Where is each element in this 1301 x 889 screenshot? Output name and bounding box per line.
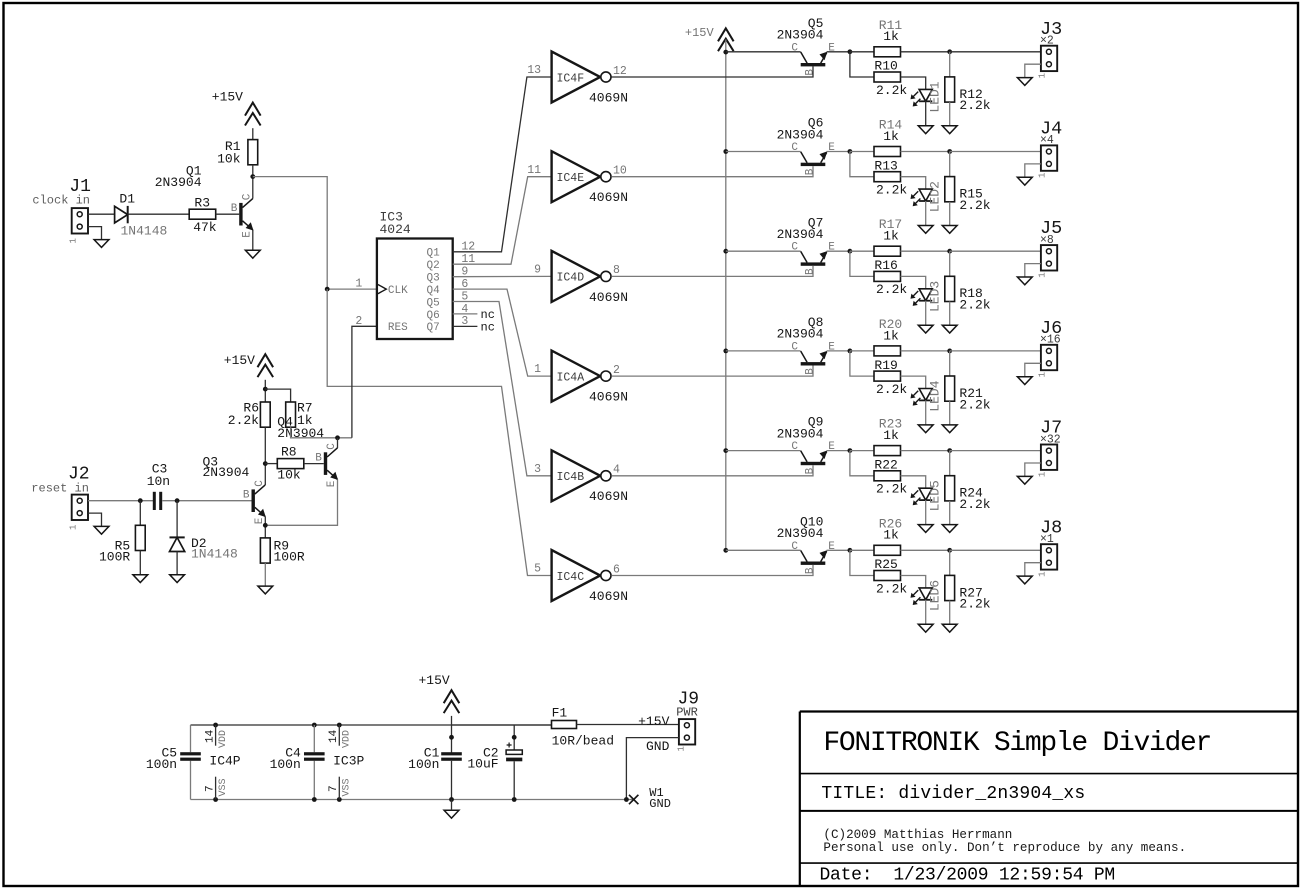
svg-text:1k: 1k (883, 29, 899, 44)
wire output node to J5 (950, 250, 1041, 252)
resistor R10 2.2k (874, 72, 901, 82)
svg-text:2.2k: 2.2k (959, 497, 990, 512)
transistor Q5 2N3904 (801, 52, 828, 67)
ground at J3 (1017, 78, 1032, 86)
wire J2 pin2 to ground (88, 513, 102, 526)
svg-text:7: 7 (328, 785, 340, 792)
wire output node to R27 (949, 550, 951, 575)
junction output node (947, 249, 952, 254)
junction emitter node (848, 349, 853, 354)
junction IC3P VDD (337, 723, 342, 728)
svg-text:1k: 1k (883, 129, 899, 144)
wire R20 to output node (901, 350, 950, 352)
wire IC3 pin to IC4D input (453, 275, 552, 277)
transistor Q7 2N3904 (801, 251, 828, 266)
wire +15V bottom rail left (191, 724, 552, 726)
svg-text:FONITRONIK Simple Divider: FONITRONIK Simple Divider (823, 728, 1211, 759)
svg-text:TITLE: divider_2n3904_xs: TITLE: divider_2n3904_xs (821, 784, 1085, 804)
wire to R11 (850, 51, 874, 53)
ground at J5 (1017, 277, 1032, 285)
svg-text:C: C (326, 443, 338, 450)
svg-text:Date: 1/23/2009 12:59:54 PM: Date: 1/23/2009 12:59:54 PM (820, 866, 1115, 886)
wire LED6 to ground (925, 600, 927, 625)
svg-text:2.2k: 2.2k (876, 382, 907, 397)
wire J8 pin2 to ground (1025, 563, 1041, 576)
junction D2 branch (175, 498, 180, 503)
wire output node to J6 (950, 350, 1041, 352)
transistor Q10 2N3904 (801, 550, 828, 565)
connector J5 ×8 (1041, 245, 1057, 270)
svg-text:B: B (231, 203, 238, 215)
wire Q5 base to IC4F output (611, 66, 813, 77)
wire Q7 emitter (827, 250, 850, 252)
LED LED2 (911, 189, 933, 206)
svg-text:×8: ×8 (1040, 234, 1054, 247)
junction GND rail W1 (624, 797, 629, 802)
ground at J4 (1017, 177, 1032, 185)
wire Q10 base to IC4C output (611, 565, 813, 576)
ground at J6 (1017, 377, 1032, 385)
wire R8 to Q4 base (304, 463, 324, 465)
wire C4 bottom lead (313, 761, 315, 800)
wire IC3P VSS stub (338, 777, 340, 800)
wire output node to R12 (949, 52, 951, 77)
wire Q6 base to IC4E output (611, 166, 813, 177)
wire R1 to Q1 collector (252, 165, 254, 199)
ground at R27 (942, 624, 957, 632)
wire to R23 (850, 450, 874, 452)
wire R25 to LED6 (901, 576, 926, 588)
svg-text:2.2k: 2.2k (959, 597, 990, 612)
capacitor C1 (441, 752, 462, 761)
junction rail stage 2 (723, 149, 728, 154)
ground at LED6 (918, 624, 933, 632)
wire J2 pin1 to C3 (88, 500, 153, 502)
svg-text:VDD: VDD (218, 730, 229, 748)
wire Q3 emitter to R9 (264, 517, 266, 538)
junction node CLOCK at Q1 collector (250, 174, 255, 179)
wire IC3 pin3 nc stub (453, 325, 478, 327)
resistor R16 2.2k (874, 271, 901, 281)
resistor R15 2.2k (945, 177, 955, 202)
junction IC3P VSS (337, 797, 342, 802)
transistor Q3 (252, 485, 266, 517)
wire C1 bottom lead (451, 761, 453, 800)
svg-text:1: 1 (1038, 372, 1048, 377)
wire to R20 (850, 350, 874, 352)
svg-text:VSS: VSS (342, 778, 353, 796)
svg-text:1k: 1k (883, 528, 899, 543)
ground at R12 (942, 126, 957, 134)
ground at LED5 (918, 525, 933, 533)
svg-text:2N3904: 2N3904 (777, 526, 824, 541)
svg-text:B: B (804, 268, 816, 275)
+15V supply above R1 (245, 103, 261, 126)
svg-text:4069N: 4069N (589, 290, 628, 305)
svg-text:Q3: Q3 (426, 273, 439, 285)
svg-text:4069N: 4069N (589, 489, 628, 504)
transistor Q6 2N3904 (801, 151, 828, 166)
wire J6 pin2 to ground (1025, 363, 1041, 376)
svg-text:R16: R16 (874, 258, 897, 273)
wire GND bottom rail (191, 799, 634, 801)
wire LED1 to ground (925, 101, 927, 126)
junction C4 bottom (312, 797, 317, 802)
svg-text:1k: 1k (883, 229, 899, 244)
wire R15 to ground (949, 202, 951, 226)
wire +15V rail to Q5 collector (726, 51, 801, 53)
svg-text:PWR: PWR (676, 706, 698, 720)
wire Q4 collector up (337, 438, 339, 448)
wire J1 pin1 to D1 (88, 213, 115, 215)
resistor R11 1k (874, 47, 901, 57)
junction rail stage 4 (723, 349, 728, 354)
svg-text:2: 2 (355, 315, 362, 328)
wire +15V to R7 (265, 389, 290, 402)
svg-text:4069N: 4069N (589, 90, 628, 105)
svg-text:100R: 100R (99, 549, 130, 564)
svg-text:RES: RES (388, 322, 408, 334)
svg-text:47k: 47k (193, 220, 217, 235)
svg-text:2.2k: 2.2k (876, 282, 907, 297)
capacitor C3 (153, 492, 162, 510)
svg-text:R3: R3 (194, 195, 210, 210)
wire R12 to ground (949, 102, 951, 126)
wire R17 to output node (901, 250, 950, 252)
svg-text:2N3904: 2N3904 (777, 426, 824, 441)
capacitor C5 (180, 752, 201, 761)
wire IC3P VDD stub (338, 725, 340, 746)
wire output node to J7 (950, 450, 1041, 452)
wire R16 to LED3 (901, 276, 926, 288)
wire to IC3 RES (352, 326, 377, 438)
svg-text:clock in: clock in (32, 194, 90, 208)
svg-text:E: E (828, 142, 835, 154)
svg-text:10k: 10k (217, 151, 241, 166)
wire LED5 to ground (925, 500, 927, 524)
ground at R21 (942, 425, 957, 433)
inverter IC4A 4069N (552, 351, 611, 402)
svg-text:1N4148: 1N4148 (191, 547, 238, 562)
ground at LED1 (918, 126, 933, 134)
wire C3 to Q3 base (162, 500, 251, 502)
junction C2 +15V (512, 735, 517, 740)
svg-text:C: C (791, 541, 798, 553)
svg-text:IC3P: IC3P (333, 754, 364, 769)
wire to D2 (176, 501, 178, 538)
resistor R22 2.2k (874, 471, 901, 481)
svg-text:E: E (326, 480, 338, 487)
svg-text:C: C (242, 193, 254, 200)
svg-text:1: 1 (1038, 472, 1048, 477)
svg-text:IC4C: IC4C (557, 571, 585, 584)
ground at R9 (258, 586, 273, 594)
svg-text:+15V: +15V (418, 673, 449, 688)
svg-text:Q4: Q4 (426, 285, 440, 297)
wire output node to J8 (950, 549, 1041, 551)
wire F1 to J9 pin1 (577, 724, 679, 726)
svg-text:100n: 100n (270, 757, 301, 772)
junction IC4P VSS (213, 797, 218, 802)
title block frame (800, 712, 1298, 887)
svg-text:×32: ×32 (1040, 433, 1061, 446)
wire +15V to R1 (252, 128, 254, 139)
svg-text:B: B (804, 467, 816, 474)
wire C2 bottom lead (513, 761, 515, 799)
LED LED4 (911, 389, 933, 406)
resistor R7 (286, 402, 296, 427)
transistor Q1 (239, 198, 253, 230)
wire to R14 (850, 151, 874, 153)
svg-text:IC4D: IC4D (557, 272, 585, 285)
+15V supply above R6 R7 (258, 354, 274, 377)
IC3 CLK clock wedge (378, 285, 386, 294)
transistor Q8 2N3904 (801, 351, 828, 366)
svg-text:2.2k: 2.2k (959, 198, 990, 213)
wire Q8 emitter (827, 350, 850, 352)
wire R10 to LED1 (901, 77, 926, 89)
wire junction to R8 (265, 463, 277, 465)
wire IC3 pin to IC4A input (453, 289, 552, 376)
svg-text:Personal use only. Don’t repro: Personal use only. Don’t reproduce by an… (823, 841, 1186, 855)
svg-text:GND: GND (646, 739, 670, 754)
svg-text:LED5: LED5 (928, 480, 943, 511)
wire J1 pin2 to ground (88, 227, 102, 240)
resistor R5 (135, 525, 145, 550)
svg-text:1: 1 (355, 278, 362, 291)
LED LED1 (911, 89, 933, 106)
wire +15V to R6 (264, 380, 266, 402)
wire emitter node to R10 (850, 52, 874, 77)
wire +15V rail to Q6 collector (726, 151, 801, 153)
inverter IC4D 4069N (552, 251, 611, 302)
wire R19 to LED4 (901, 376, 926, 388)
LED LED3 (911, 289, 933, 306)
wire Q8 base to IC4A output (611, 366, 813, 377)
svg-text:CLK: CLK (388, 285, 408, 297)
svg-text:10n: 10n (147, 474, 170, 489)
wire +15V rail to Q8 collector (726, 350, 801, 352)
svg-text:C: C (791, 142, 798, 154)
junction Q3 emitter R9 (263, 523, 268, 528)
svg-text:1N4148: 1N4148 (121, 224, 168, 239)
svg-text:2.2k: 2.2k (959, 98, 990, 113)
wire Q7 base to IC4D output (611, 266, 813, 277)
junction emitter node (848, 448, 853, 453)
resistor R21 2.2k (945, 376, 955, 401)
junction +15V rail top (723, 50, 728, 55)
svg-text:Q5: Q5 (426, 297, 439, 309)
svg-text:4: 4 (613, 464, 620, 477)
svg-text:R8: R8 (281, 445, 297, 460)
svg-text:1k: 1k (883, 428, 899, 443)
junction rail stage 3 (723, 249, 728, 254)
svg-text:1: 1 (677, 746, 687, 751)
svg-text:Q2: Q2 (426, 260, 439, 272)
junction emitter node (848, 548, 853, 553)
svg-text:VDD: VDD (342, 730, 353, 748)
svg-text:1: 1 (1038, 73, 1048, 78)
wire J4 pin2 to ground (1025, 164, 1041, 177)
diode D1 (115, 206, 128, 223)
wire J9 pin2 GND down to rail (626, 738, 679, 800)
junction output node (947, 548, 952, 553)
wire J5 pin2 to ground (1025, 264, 1041, 277)
resistor R19 2.2k (874, 371, 901, 381)
wire output node to R15 (949, 152, 951, 177)
ground at LED3 (918, 325, 933, 333)
junction R5 branch (138, 498, 143, 503)
svg-text:1: 1 (534, 363, 541, 376)
resistor R24 2.2k (945, 476, 955, 501)
svg-text:2N3904: 2N3904 (777, 28, 824, 43)
svg-text:1: 1 (69, 525, 79, 530)
svg-text:×16: ×16 (1040, 334, 1061, 347)
connector J9 PWR (679, 719, 695, 744)
ground at J2 (94, 526, 109, 534)
resistor R18 2.2k (945, 276, 955, 301)
ground below C1 (444, 810, 459, 818)
junction C1 GND (449, 797, 454, 802)
junction +15V R6 R7 (263, 387, 268, 392)
wire emitter node to R19 (850, 351, 874, 376)
junction emitter node (848, 149, 853, 154)
svg-text:2N3904: 2N3904 (203, 465, 250, 480)
wire output node to R24 (949, 451, 951, 476)
connector J1 clock in (72, 208, 88, 233)
resistor R25 2.2k (874, 571, 901, 581)
svg-text:Q7: Q7 (426, 322, 439, 334)
junction C4 top (312, 723, 317, 728)
inverter IC4C 4069N (552, 550, 611, 601)
svg-text:14: 14 (328, 729, 340, 743)
resistor R12 2.2k (945, 77, 955, 102)
wire R21 to ground (949, 401, 951, 425)
+15V supply right rail (718, 28, 734, 51)
svg-text:+15V: +15V (638, 714, 669, 729)
inverter IC4F 4069N (552, 52, 611, 103)
wire Q9 base to IC4B output (611, 465, 813, 476)
svg-text:IC4P: IC4P (209, 754, 240, 769)
wire IC4P VSS stub (215, 777, 217, 800)
wire R14 to output node (901, 151, 950, 153)
svg-text:×4: ×4 (1040, 134, 1054, 147)
wire emitter node to R25 (850, 550, 874, 575)
svg-text:9: 9 (534, 264, 541, 277)
svg-text:+15V: +15V (224, 353, 255, 368)
resistor R1 (248, 140, 258, 165)
svg-text:2N3904: 2N3904 (277, 426, 324, 441)
resistor R13 2.2k (874, 172, 901, 182)
wire R22 to LED5 (901, 476, 926, 488)
wire R23 to output node (901, 450, 950, 452)
connector J2 reset in (72, 495, 88, 520)
svg-text:4024: 4024 (380, 222, 411, 237)
svg-text:2N3904: 2N3904 (777, 227, 824, 242)
svg-text:100n: 100n (408, 757, 439, 772)
wire C5 bottom lead (190, 761, 192, 800)
wire +15V rail to Q9 collector (726, 450, 801, 452)
svg-text:R10: R10 (874, 59, 897, 74)
svg-text:+15V: +15V (212, 90, 243, 105)
svg-text:LED4: LED4 (928, 380, 943, 411)
wire output node to R18 (949, 251, 951, 276)
wire Q1 emitter to ground (252, 230, 254, 250)
wire +15V rail to Q10 collector (726, 549, 801, 551)
junction output node (947, 448, 952, 453)
resistor R26 1k (874, 545, 901, 555)
svg-text:2.2k: 2.2k (228, 413, 259, 428)
wire Q6 emitter (827, 151, 850, 153)
svg-text:10R/bead: 10R/bead (552, 734, 614, 749)
junction rail stage 5 (723, 448, 728, 453)
svg-text:C: C (791, 441, 798, 453)
wire IC4P VDD stub (215, 725, 217, 746)
wire J3 pin2 to ground (1025, 64, 1041, 77)
svg-text:100n: 100n (146, 757, 177, 772)
resistor R9 (260, 538, 270, 563)
svg-text:2N3904: 2N3904 (777, 327, 824, 342)
transistor Q4 (324, 448, 338, 480)
wire Q5 emitter (827, 51, 850, 53)
junction output node (947, 149, 952, 154)
wire C4 top lead (313, 725, 315, 752)
svg-text:1k: 1k (883, 328, 899, 343)
ground at J1 (94, 240, 109, 248)
svg-text:B: B (243, 490, 250, 502)
svg-text:E: E (242, 231, 254, 238)
wire clock net to IC4C input (327, 289, 551, 575)
svg-text:C: C (791, 242, 798, 254)
ground at J7 (1017, 476, 1032, 484)
svg-text:11: 11 (527, 164, 541, 177)
svg-text:R13: R13 (874, 158, 897, 173)
svg-text:4069N: 4069N (589, 390, 628, 405)
ground at R5 (133, 575, 148, 583)
svg-text:LED2: LED2 (928, 181, 943, 212)
wire J7 pin2 to ground (1025, 463, 1041, 476)
svg-text:2.2k: 2.2k (876, 581, 907, 596)
capacitor C4 (304, 752, 325, 761)
wire clock net to IC3 CLK (253, 177, 377, 290)
svg-text:LED1: LED1 (928, 81, 943, 112)
junction C1 +15V (449, 735, 454, 740)
wire +15V rail vertical (725, 40, 727, 551)
resistor R6 (260, 402, 270, 427)
ground at D2 (170, 575, 185, 583)
svg-text:1: 1 (1038, 571, 1048, 576)
ground at LED2 (918, 226, 933, 234)
svg-text:reset in: reset in (31, 481, 89, 495)
svg-text:1: 1 (1038, 173, 1048, 178)
svg-text:10k: 10k (277, 468, 301, 483)
wire D2 to ground (176, 552, 178, 575)
svg-text:2.2k: 2.2k (959, 298, 990, 313)
svg-text:10: 10 (613, 165, 627, 178)
svg-text:IC4F: IC4F (557, 72, 585, 85)
svg-text:Q1: Q1 (426, 248, 440, 260)
svg-text:Q6: Q6 (426, 310, 439, 322)
svg-text:F1: F1 (552, 705, 568, 720)
wire C1 to ground symbol (451, 800, 453, 811)
svg-text:10uF: 10uF (467, 756, 498, 771)
connector J8 ×1 (1041, 544, 1057, 569)
svg-text:×2: ×2 (1040, 35, 1054, 48)
svg-text:IC4E: IC4E (557, 172, 585, 185)
LED LED6 (911, 588, 933, 605)
wire emitter node to R16 (850, 251, 874, 276)
junction output node (947, 349, 952, 354)
